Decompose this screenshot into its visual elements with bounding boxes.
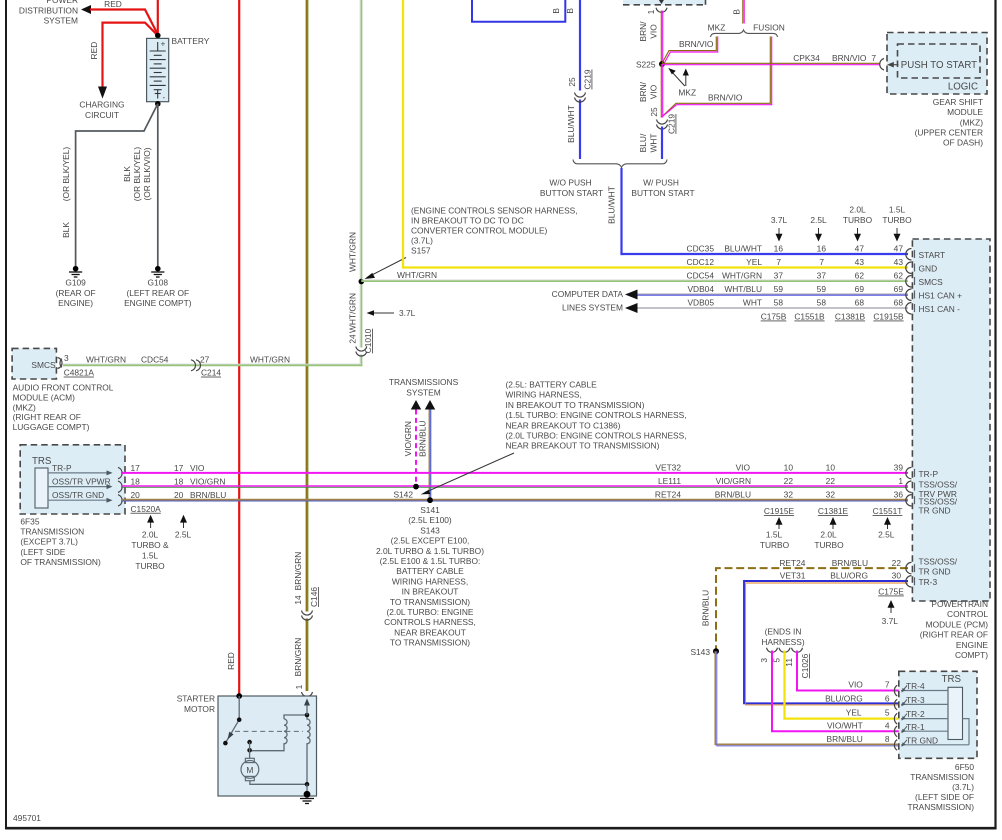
svg-text:OSS/TR VPWR: OSS/TR VPWR	[52, 477, 111, 487]
module AFCM SMCS box	[12, 348, 56, 379]
svg-text:(1.5L TURBO: ENGINE CONTROLS H: (1.5L TURBO: ENGINE CONTROLS HARNESS,	[506, 410, 687, 420]
connector arcs PCM upper pins	[906, 249, 912, 315]
svg-text:TRS: TRS	[942, 674, 962, 685]
starter motor box	[218, 696, 317, 796]
svg-text:22: 22	[892, 558, 902, 568]
svg-text:BRN/BLU: BRN/BLU	[715, 489, 751, 499]
svg-text:GEAR SHIFT: GEAR SHIFT	[933, 97, 983, 107]
wire VIO C1026 pin11 to TR-4	[797, 651, 899, 691]
svg-text:DISTRIBUTION: DISTRIBUTION	[19, 6, 78, 16]
label GEAR SHIFT MODULE (MKZ) (UPPER CENTER OF DASH)	[915, 97, 984, 148]
svg-text:PUSH TO START: PUSH TO START	[901, 60, 977, 71]
svg-text:14: 14	[293, 595, 303, 605]
module box (cut off, top) blue outline	[472, 0, 565, 22]
svg-text:68: 68	[894, 297, 904, 307]
svg-text:WHT/BLU: WHT/BLU	[724, 284, 762, 294]
node POWER DISTRIBUTION SYSTEM	[19, 0, 91, 26]
svg-text:1: 1	[646, 9, 656, 14]
module TRS 6F50 dashed box	[899, 671, 977, 758]
label AUDIO FRONT CONTROL MODULE (ACM)	[13, 383, 114, 433]
svg-text:S141: S141	[420, 505, 440, 515]
note S141 S143 splice description	[376, 505, 484, 648]
svg-text:S143: S143	[420, 525, 440, 535]
ground G108	[124, 266, 192, 308]
svg-text:2.0L: 2.0L	[849, 205, 866, 215]
svg-text:CIRCUIT: CIRCUIT	[85, 110, 119, 120]
svg-text:TR GND: TR GND	[906, 735, 938, 745]
svg-text:CONTROL: CONTROL	[947, 609, 988, 619]
svg-text:18: 18	[131, 477, 141, 487]
connector arcs PCM TR pins	[906, 467, 912, 506]
svg-text:TRS: TRS	[32, 456, 52, 467]
wire BLU/WHT merged vertical below brace	[620, 168, 622, 255]
svg-text:C1520A: C1520A	[131, 504, 162, 514]
svg-text:C219: C219	[583, 69, 593, 89]
svg-text:YEL: YEL	[746, 257, 762, 267]
svg-text:RET24: RET24	[655, 489, 681, 499]
module PCM dashed box	[912, 239, 990, 601]
svg-text:C1026: C1026	[800, 653, 810, 678]
svg-text:(LEFT REAR OF: (LEFT REAR OF	[126, 288, 189, 298]
module GSM (gear shift module)	[887, 33, 987, 95]
wire CDC12 YEL to PCM GND	[403, 266, 908, 268]
svg-text:3.7L: 3.7L	[882, 616, 899, 626]
wire VDB04 WHT/BLU to PCM HS1 CAN +	[637, 294, 908, 295]
svg-text:W/O PUSH: W/O PUSH	[549, 178, 591, 188]
svg-text:RED: RED	[89, 42, 99, 60]
svg-text:6F35: 6F35	[20, 516, 39, 526]
svg-text:47: 47	[855, 243, 865, 253]
labels PCM TSS/OSS TR GND TR-3	[919, 556, 958, 586]
svg-text:TURBO &: TURBO &	[131, 540, 169, 550]
svg-text:16: 16	[817, 243, 827, 253]
svg-text:CONTROLS HARNESS,: CONTROLS HARNESS,	[384, 617, 476, 627]
svg-text:BRN/BLU: BRN/BLU	[418, 421, 428, 457]
solenoid pull-in coil	[250, 715, 307, 751]
svg-text:TRANSMISSION: TRANSMISSION	[20, 527, 84, 537]
svg-text:TR-4: TR-4	[906, 681, 925, 691]
svg-text:S225: S225	[636, 59, 656, 69]
svg-text:TRANSMISSION): TRANSMISSION)	[907, 802, 974, 812]
svg-text:47: 47	[894, 243, 904, 253]
svg-text:C219: C219	[667, 114, 677, 134]
svg-text:SMCS: SMCS	[919, 277, 944, 287]
svg-text:TURBO: TURBO	[135, 561, 165, 571]
svg-text:VDB04: VDB04	[687, 284, 714, 294]
svg-text:10: 10	[826, 462, 836, 472]
svg-text:NEAR BREAKOUT: NEAR BREAKOUT	[394, 627, 466, 637]
labels VET32 row right	[655, 462, 903, 472]
svg-text:2.5L: 2.5L	[878, 529, 895, 539]
labels LE111 row right	[658, 476, 903, 486]
svg-text:(OR BLK/YEL): (OR BLK/YEL)	[61, 147, 71, 202]
wire BRN/VIO from GSM pin 1 to S225	[661, 11, 662, 65]
svg-text:CPK34: CPK34	[793, 53, 820, 63]
svg-text:RET24: RET24	[779, 558, 805, 568]
arrows up below connectors	[776, 517, 892, 529]
svg-text:TSS/OSS/: TSS/OSS/	[919, 556, 958, 566]
svg-text:MODULE (ACM): MODULE (ACM)	[13, 392, 76, 402]
svg-text:C1551B: C1551B	[794, 312, 825, 322]
svg-text:27: 27	[200, 354, 210, 364]
svg-text:C214: C214	[201, 368, 221, 378]
svg-text:TR-P: TR-P	[919, 469, 939, 479]
svg-text:VIO: VIO	[649, 24, 659, 39]
svg-text:TO TRANSMISSION): TO TRANSMISSION)	[390, 597, 470, 607]
junction dot battery positive	[155, 33, 161, 39]
svg-text:5: 5	[885, 708, 890, 718]
svg-text:BLU/: BLU/	[638, 133, 648, 152]
svg-text:(MKZ): (MKZ)	[960, 117, 983, 127]
wire CPK34 BRN/VIO S225 to push-to-start	[662, 63, 880, 64]
svg-text:CDC54: CDC54	[687, 270, 715, 280]
svg-text:1: 1	[898, 476, 903, 486]
labels TRS rows	[825, 679, 890, 744]
svg-text:OF DASH): OF DASH)	[943, 138, 983, 148]
splice S142 dot	[413, 484, 419, 490]
svg-text:3: 3	[64, 353, 69, 363]
wire BRN/BLU S143 to TRS TR GND	[715, 651, 899, 746]
svg-text:VIO: VIO	[649, 84, 659, 99]
wire BRN/GRN long vertical to starter motor	[306, 0, 307, 691]
svg-text:68: 68	[855, 297, 865, 307]
svg-text:BUTTON START: BUTTON START	[631, 188, 694, 198]
svg-text:6F50: 6F50	[955, 762, 974, 772]
connector labels C175B C1551B C1381B C1915B	[761, 312, 904, 322]
svg-text:(RIGHT REAR OF: (RIGHT REAR OF	[13, 412, 81, 422]
note ENGINE CONTROLS SENSOR HARNESS	[411, 206, 578, 256]
svg-text:TURBO: TURBO	[843, 215, 873, 225]
wire YEL vertical from top	[403, 0, 405, 268]
svg-text:G108: G108	[148, 278, 169, 288]
svg-text:S143: S143	[690, 647, 710, 657]
svg-text:LE111: LE111	[658, 476, 681, 486]
labels VDB05 row	[687, 297, 903, 307]
svg-text:BATTERY: BATTERY	[172, 36, 210, 46]
svg-text:2.0L TURBO & 1.5L TURBO): 2.0L TURBO & 1.5L TURBO)	[376, 546, 484, 556]
svg-text:+: +	[161, 39, 166, 49]
svg-text:RED: RED	[226, 652, 236, 670]
svg-text:C4821A: C4821A	[64, 368, 95, 378]
ground G109	[56, 266, 96, 308]
labels PCM TR-P TSS/OSS pins	[919, 469, 958, 516]
svg-text:17: 17	[174, 463, 184, 473]
svg-text:(REAR OF: (REAR OF	[56, 288, 96, 298]
battery	[147, 38, 169, 102]
node COMPUTER DATA LINES SYSTEM	[552, 289, 638, 313]
svg-text:C1915E: C1915E	[764, 506, 795, 516]
pins 17 18 20	[131, 463, 141, 500]
svg-text:VIO: VIO	[736, 462, 751, 472]
svg-text:(2.5L EXCEPT E100,: (2.5L EXCEPT E100,	[391, 536, 470, 546]
svg-text:(2.5L E100): (2.5L E100)	[408, 515, 452, 525]
svg-text:WHT/GRN: WHT/GRN	[250, 354, 290, 364]
dashed linkage line	[235, 730, 303, 732]
svg-text:HS1 CAN -: HS1 CAN -	[919, 304, 961, 314]
svg-text:BLK: BLK	[61, 222, 71, 238]
svg-text:7: 7	[819, 257, 824, 267]
svg-text:VIO/GRN: VIO/GRN	[403, 421, 413, 456]
svg-text:(ENDS IN: (ENDS IN	[765, 627, 802, 637]
wire VIO/WHT C1026 pin3 to TR-1	[772, 651, 899, 732]
svg-text:18: 18	[174, 477, 184, 487]
module TRS 6F35 dashed box	[20, 445, 125, 514]
note 2.5L battery cable harness	[506, 380, 687, 451]
connector arc AFCM	[58, 358, 63, 369]
svg-text:TURBO: TURBO	[814, 540, 844, 550]
engine variant column headers	[771, 205, 912, 225]
arrow up C175E	[890, 603, 892, 613]
svg-text:VIO/WHT: VIO/WHT	[827, 720, 863, 730]
wire VET31 BLU/ORG to PCM TR-3	[744, 581, 908, 705]
svg-text:BLU/WHT: BLU/WHT	[607, 186, 617, 224]
svg-text:CDC35: CDC35	[687, 243, 715, 253]
svg-text:C1915B: C1915B	[873, 312, 904, 322]
svg-text:BLU/ORG: BLU/ORG	[830, 571, 868, 581]
svg-text:(OR BLK/VIO): (OR BLK/VIO)	[142, 147, 152, 200]
labels RET24 row right	[655, 489, 903, 499]
junction dot coil top	[305, 713, 310, 718]
svg-text:IN BREAKOUT TO TRANSMISSION): IN BREAKOUT TO TRANSMISSION)	[506, 400, 645, 410]
svg-text:STARTER: STARTER	[177, 694, 215, 704]
svg-text:POWERTRAIN: POWERTRAIN	[931, 599, 988, 609]
svg-text:MODULE: MODULE	[947, 107, 983, 117]
svg-text:495701: 495701	[13, 813, 41, 823]
svg-text:TO TRANSMISSION): TO TRANSMISSION)	[390, 638, 470, 648]
svg-text:59: 59	[774, 284, 784, 294]
wire VIO/GRN dashed vertical to S142	[415, 410, 417, 487]
svg-text:IN BREAKOUT TO DC TO DC: IN BREAKOUT TO DC TO DC	[411, 216, 524, 226]
svg-text:WIRING HARNESS,: WIRING HARNESS,	[506, 390, 582, 400]
svg-text:(EXCEPT 3.7L): (EXCEPT 3.7L)	[20, 537, 78, 547]
pin lines 6F35	[48, 473, 111, 500]
svg-text:20: 20	[174, 490, 184, 500]
svg-text:C1381E: C1381E	[818, 506, 849, 516]
svg-text:(RIGHT REAR OF: (RIGHT REAR OF	[920, 630, 988, 640]
svg-text:B: B	[565, 8, 575, 14]
motor M	[241, 758, 259, 780]
arrows 2.0L/2.5L up	[147, 515, 187, 528]
svg-text:YEL: YEL	[846, 708, 862, 718]
svg-text:BLU/ORG: BLU/ORG	[825, 693, 863, 703]
svg-text:ENGINE: ENGINE	[956, 640, 989, 650]
svg-text:C175B: C175B	[761, 312, 787, 322]
svg-text:HS1 CAN +: HS1 CAN +	[919, 291, 963, 301]
svg-text:FUSION: FUSION	[753, 23, 785, 33]
svg-text:BRN/VIO: BRN/VIO	[679, 39, 714, 49]
arrow MKZ diagonal to S225	[668, 68, 685, 86]
svg-text:BLK: BLK	[122, 166, 132, 182]
svg-text:37: 37	[817, 270, 827, 280]
svg-text:16: 16	[774, 243, 784, 253]
wire RET24 BRN/BLU dashed to PCM TSS/OSS TR GND	[716, 568, 908, 651]
svg-text:37: 37	[774, 270, 784, 280]
svg-text:BRN/: BRN/	[638, 21, 648, 42]
svg-text:B: B	[732, 9, 742, 15]
labels PCM upper pins	[919, 250, 963, 314]
svg-text:MKZ: MKZ	[678, 87, 696, 97]
svg-text:S157: S157	[411, 246, 431, 256]
svg-text:3: 3	[759, 658, 769, 663]
svg-text:1.5L: 1.5L	[889, 205, 906, 215]
label 6F35 TRANSMISSION	[20, 516, 101, 567]
svg-text:WHT/GRN: WHT/GRN	[722, 270, 762, 280]
splice S141 dot	[427, 497, 433, 503]
svg-text:MODULE (PCM): MODULE (PCM)	[926, 619, 989, 629]
svg-text:IN BREAKOUT: IN BREAKOUT	[402, 587, 459, 597]
wire BLU/WHT left branch from top	[579, 0, 581, 91]
splice S157 dot	[359, 279, 365, 285]
wire CDC35 BLU/WHT to PCM START	[622, 253, 909, 255]
svg-text:MKZ: MKZ	[708, 23, 726, 33]
svg-text:58: 58	[817, 297, 827, 307]
svg-text:32: 32	[784, 489, 794, 499]
labels VDB04 row	[687, 284, 903, 294]
arrow to charging circuit	[98, 87, 107, 99]
wire RET24 BRN/BLU row	[121, 500, 908, 501]
svg-text:20: 20	[131, 490, 141, 500]
module GSM cut-off box at top	[623, 0, 706, 5]
svg-text:HARNESS): HARNESS)	[761, 637, 804, 647]
svg-text:NEAR BREAKOUT TO TRANSMISSION): NEAR BREAKOUT TO TRANSMISSION)	[506, 441, 660, 451]
connector arcs 6F35 edge	[118, 467, 122, 506]
svg-text:17: 17	[131, 463, 141, 473]
svg-text:8: 8	[885, 734, 890, 744]
svg-text:(UPPER CENTER: (UPPER CENTER	[915, 128, 983, 138]
svg-text:BLU/WHT: BLU/WHT	[566, 105, 576, 143]
svg-text:TURBO: TURBO	[882, 215, 912, 225]
arrow MKZ vertical to CPK34 wire	[683, 69, 689, 87]
svg-text:VIO: VIO	[848, 679, 863, 689]
svg-text:58: 58	[774, 297, 784, 307]
svg-text:36: 36	[894, 489, 904, 499]
wire VDB05 WHT to PCM HS1 CAN -	[637, 307, 908, 309]
svg-text:G109: G109	[65, 278, 86, 288]
contact dots	[247, 740, 252, 745]
wire BRN/BLU vertical to S141	[429, 410, 430, 501]
svg-text:RED: RED	[104, 0, 122, 9]
connector bar 6F35	[35, 468, 48, 508]
svg-text:69: 69	[855, 284, 865, 294]
solenoid hold-in coil	[307, 715, 310, 784]
svg-text:WIRING HARNESS,: WIRING HARNESS,	[392, 576, 468, 586]
arrow from harness note to S141	[425, 453, 514, 493]
svg-text:LUGGAGE COMPT): LUGGAGE COMPT)	[13, 422, 90, 432]
svg-text:43: 43	[855, 257, 865, 267]
svg-text:2.5L: 2.5L	[810, 215, 827, 225]
svg-text:BRN/BLU: BRN/BLU	[701, 590, 711, 626]
column arrows down	[776, 228, 901, 242]
svg-text:W/ PUSH: W/ PUSH	[643, 178, 679, 188]
wire BRN/VIO MKZ branch	[662, 37, 718, 65]
connector C214 symbol	[191, 360, 201, 371]
connector arc GSM pin 1	[656, 8, 667, 13]
labels VET31 row	[780, 571, 902, 581]
svg-text:BRN/GRN: BRN/GRN	[293, 552, 303, 591]
svg-text:CONVERTER CONTROL MODULE): CONVERTER CONTROL MODULE)	[411, 226, 548, 236]
svg-text:SMCS: SMCS	[31, 360, 56, 370]
svg-text:(3.7L): (3.7L)	[411, 236, 433, 246]
wire RED long vertical to starter motor	[238, 0, 240, 696]
svg-text:22: 22	[826, 476, 836, 486]
svg-text:25: 25	[567, 77, 577, 87]
wire BRN/VIO S225 to C219	[661, 64, 662, 118]
svg-text:7: 7	[871, 53, 876, 63]
svg-text:OSS/TR GND: OSS/TR GND	[52, 490, 104, 500]
svg-text:62: 62	[894, 270, 904, 280]
svg-text:7: 7	[885, 679, 890, 689]
svg-text:43: 43	[894, 257, 904, 267]
svg-text:TRANSMISSIONS: TRANSMISSIONS	[389, 377, 459, 387]
svg-text:-: -	[163, 92, 166, 102]
svg-text:CHARGING: CHARGING	[79, 100, 124, 110]
wire WHT/GRN vertical (S157 branch)	[359, 0, 361, 348]
svg-text:C1381B: C1381B	[835, 312, 866, 322]
wire LE111 VIO/GRN row	[121, 486, 908, 487]
svg-text:3.7L: 3.7L	[399, 308, 416, 318]
svg-text:VIO/GRN: VIO/GRN	[716, 476, 751, 486]
connector bar 6F50	[948, 687, 963, 739]
connector C219 symbol left	[575, 93, 586, 103]
svg-text:M: M	[246, 765, 253, 775]
svg-text:CDC12: CDC12	[687, 257, 715, 267]
svg-text:WHT/GRN: WHT/GRN	[397, 270, 437, 280]
svg-text:3.7L: 3.7L	[771, 215, 788, 225]
wire WHT/GRN SMCS row	[63, 363, 362, 365]
wire RED to charging circuit	[103, 23, 158, 88]
svg-text:WHT: WHT	[743, 297, 762, 307]
svg-text:22: 22	[784, 476, 794, 486]
svg-text:SYSTEM: SYSTEM	[406, 387, 440, 397]
wire CDC54 WHT/GRN to PCM SMCS	[361, 279, 908, 281]
connector arcs 6F50 edge	[894, 685, 897, 750]
svg-text:OF TRANSMISSION): OF TRANSMISSION)	[20, 557, 101, 567]
svg-text:GND: GND	[919, 264, 938, 274]
label POWERTRAIN CONTROL MODULE (PCM)	[920, 599, 989, 660]
wire RED battery positive vertical from top	[157, 0, 159, 36]
svg-text:1: 1	[294, 684, 304, 689]
connector labels C1915E C1381E C1551T	[764, 506, 903, 516]
svg-text:TR-1: TR-1	[906, 722, 925, 732]
connector C1010 symbol	[356, 347, 367, 357]
splice S143 dot	[713, 648, 719, 654]
starter solenoid switch	[225, 696, 239, 743]
svg-text:30: 30	[892, 571, 902, 581]
svg-text:START: START	[919, 250, 946, 260]
svg-text:ENGINE): ENGINE)	[58, 298, 93, 308]
svg-text:ENGINE COMPT): ENGINE COMPT)	[124, 298, 192, 308]
svg-text:NEAR BREAKOUT TO C1386): NEAR BREAKOUT TO C1386)	[506, 420, 621, 430]
svg-text:(LEFT SIDE: (LEFT SIDE	[20, 547, 65, 557]
svg-text:C1551T: C1551T	[873, 506, 903, 516]
wire VET32 VIO row	[121, 472, 908, 474]
labels CDC35 row	[687, 243, 904, 253]
node TRANSMISSIONS SYSTEM	[389, 377, 459, 410]
svg-text:BRN/BLU: BRN/BLU	[826, 734, 862, 744]
svg-text:32: 32	[826, 489, 836, 499]
svg-text:(LEFT SIDE OF: (LEFT SIDE OF	[915, 792, 974, 802]
svg-text:39: 39	[894, 462, 904, 472]
svg-text:1.5L: 1.5L	[766, 529, 783, 539]
svg-text:(2.5L: BATTERY CABLE: (2.5L: BATTERY CABLE	[506, 380, 598, 390]
arrow up to pin 1	[306, 702, 308, 715]
labels CDC54 row	[687, 270, 904, 280]
wire YEL C1026 pin5 to TR-2	[785, 651, 900, 719]
svg-text:2.0L: 2.0L	[820, 529, 837, 539]
svg-text:59: 59	[817, 284, 827, 294]
labels CDC12 row	[687, 257, 904, 267]
svg-text:TR-3: TR-3	[906, 695, 925, 705]
